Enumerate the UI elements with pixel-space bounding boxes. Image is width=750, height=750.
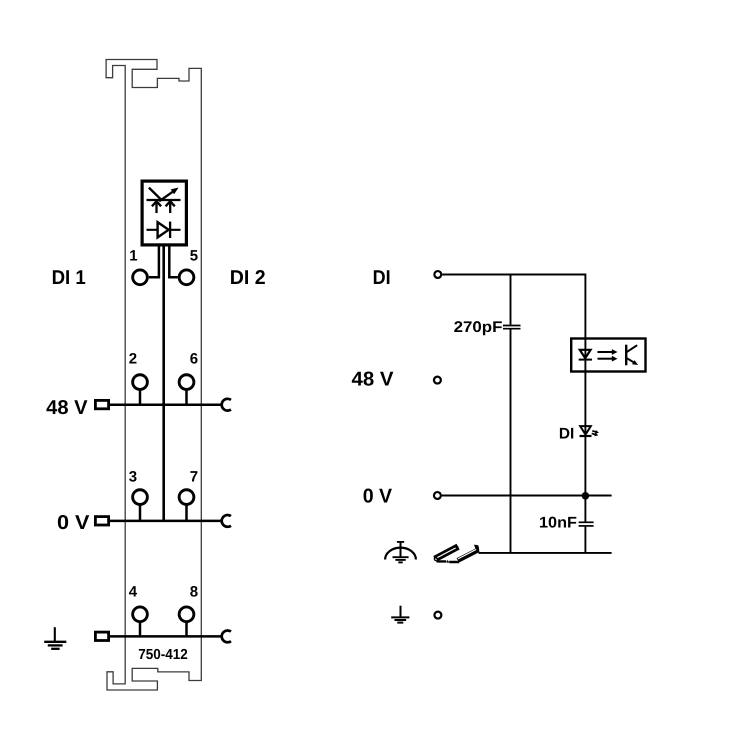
diode D1 line <box>147 229 181 231</box>
pin 6 stem <box>185 390 188 405</box>
LED up arrow left <box>152 201 161 213</box>
optocoupler LED triangle <box>580 350 591 358</box>
pin 4 stem <box>139 622 142 637</box>
terminal 48V <box>434 377 441 384</box>
LED DI light arrow lower <box>592 433 599 437</box>
svg-text:0 V: 0 V <box>57 512 90 534</box>
junction node <box>582 492 590 500</box>
pin 6 <box>179 375 194 390</box>
0V rail wire <box>110 520 222 523</box>
wire DI horizontal <box>442 275 585 522</box>
pin 8 <box>179 607 194 622</box>
LED indicator diagonal <box>149 188 161 200</box>
pin 5 <box>179 270 194 285</box>
earth flag <box>95 632 108 640</box>
svg-text:750-412: 750-412 <box>138 647 188 663</box>
svg-text:7: 7 <box>190 469 198 486</box>
capacitor 10nF <box>579 522 594 526</box>
terminal DI <box>434 271 441 278</box>
capacitor 270pF <box>503 326 521 329</box>
wire shield bus <box>479 552 612 554</box>
0V flag <box>95 517 108 525</box>
svg-text:6: 6 <box>190 351 198 368</box>
earth rail wire <box>110 635 222 638</box>
svg-text:3: 3 <box>129 469 137 486</box>
LED DI triangle <box>580 426 591 435</box>
LED up arrow right <box>166 201 175 213</box>
pin 4 <box>133 607 148 622</box>
pin 3 <box>133 490 148 505</box>
pin 2 stem <box>139 390 142 405</box>
earth jumper contact <box>222 631 231 643</box>
optocoupler light arrow lower <box>598 356 618 362</box>
svg-text:48 V: 48 V <box>46 397 88 419</box>
0V jumper contact <box>222 515 231 527</box>
diode D1 triangle <box>158 222 169 237</box>
svg-text:2: 2 <box>129 351 137 368</box>
module outline <box>106 60 201 691</box>
svg-text:10nF: 10nF <box>539 515 577 532</box>
optocoupler light arrow upper <box>598 349 618 355</box>
svg-text:DI: DI <box>373 267 391 289</box>
wire branch vertical lower <box>510 329 512 553</box>
LED indicator arrow <box>159 188 178 202</box>
svg-text:DI 1: DI 1 <box>52 267 86 289</box>
48V rail wire <box>110 403 222 406</box>
LED indicator bar <box>147 199 181 201</box>
svg-text:0 V: 0 V <box>363 486 393 508</box>
wire 0V horizontal <box>442 495 612 497</box>
svg-text:270pF: 270pF <box>454 319 503 336</box>
svg-text:48 V: 48 V <box>352 368 395 390</box>
pin 2 <box>133 375 148 390</box>
pin 8 stem <box>185 622 188 637</box>
module ground symbol <box>44 627 66 649</box>
terminal 0V <box>434 492 441 499</box>
optocoupler box <box>571 339 645 372</box>
shield clamp <box>434 545 480 563</box>
terminal earth <box>434 612 441 619</box>
pin 7 stem <box>185 505 188 521</box>
wire main vertical lower <box>584 527 586 553</box>
wire stub pin1 <box>149 246 159 277</box>
pin 1 <box>133 270 148 285</box>
wire stub pin5 <box>169 246 178 277</box>
wire branch vertical upper <box>510 275 512 325</box>
optocoupler phototransistor <box>626 345 638 366</box>
48V jumper contact <box>222 399 231 411</box>
pin 3 stem <box>139 505 142 521</box>
svg-text:8: 8 <box>190 584 198 601</box>
input block box <box>142 181 186 245</box>
svg-text:1: 1 <box>129 248 137 265</box>
svg-text:DI 2: DI 2 <box>230 267 266 289</box>
48V flag <box>95 400 108 408</box>
LED DI cathode <box>580 435 592 437</box>
wire middle vertical <box>162 246 165 521</box>
optocoupler LED cathode <box>579 359 592 361</box>
pin 7 <box>179 490 194 505</box>
LED DI light arrow upper <box>592 430 599 434</box>
functional earth symbol <box>385 542 416 563</box>
svg-text:4: 4 <box>129 584 138 601</box>
diode D1 cathode <box>169 222 171 238</box>
svg-text:5: 5 <box>190 248 198 265</box>
svg-text:DI: DI <box>559 426 574 443</box>
earth symbol <box>391 606 409 623</box>
